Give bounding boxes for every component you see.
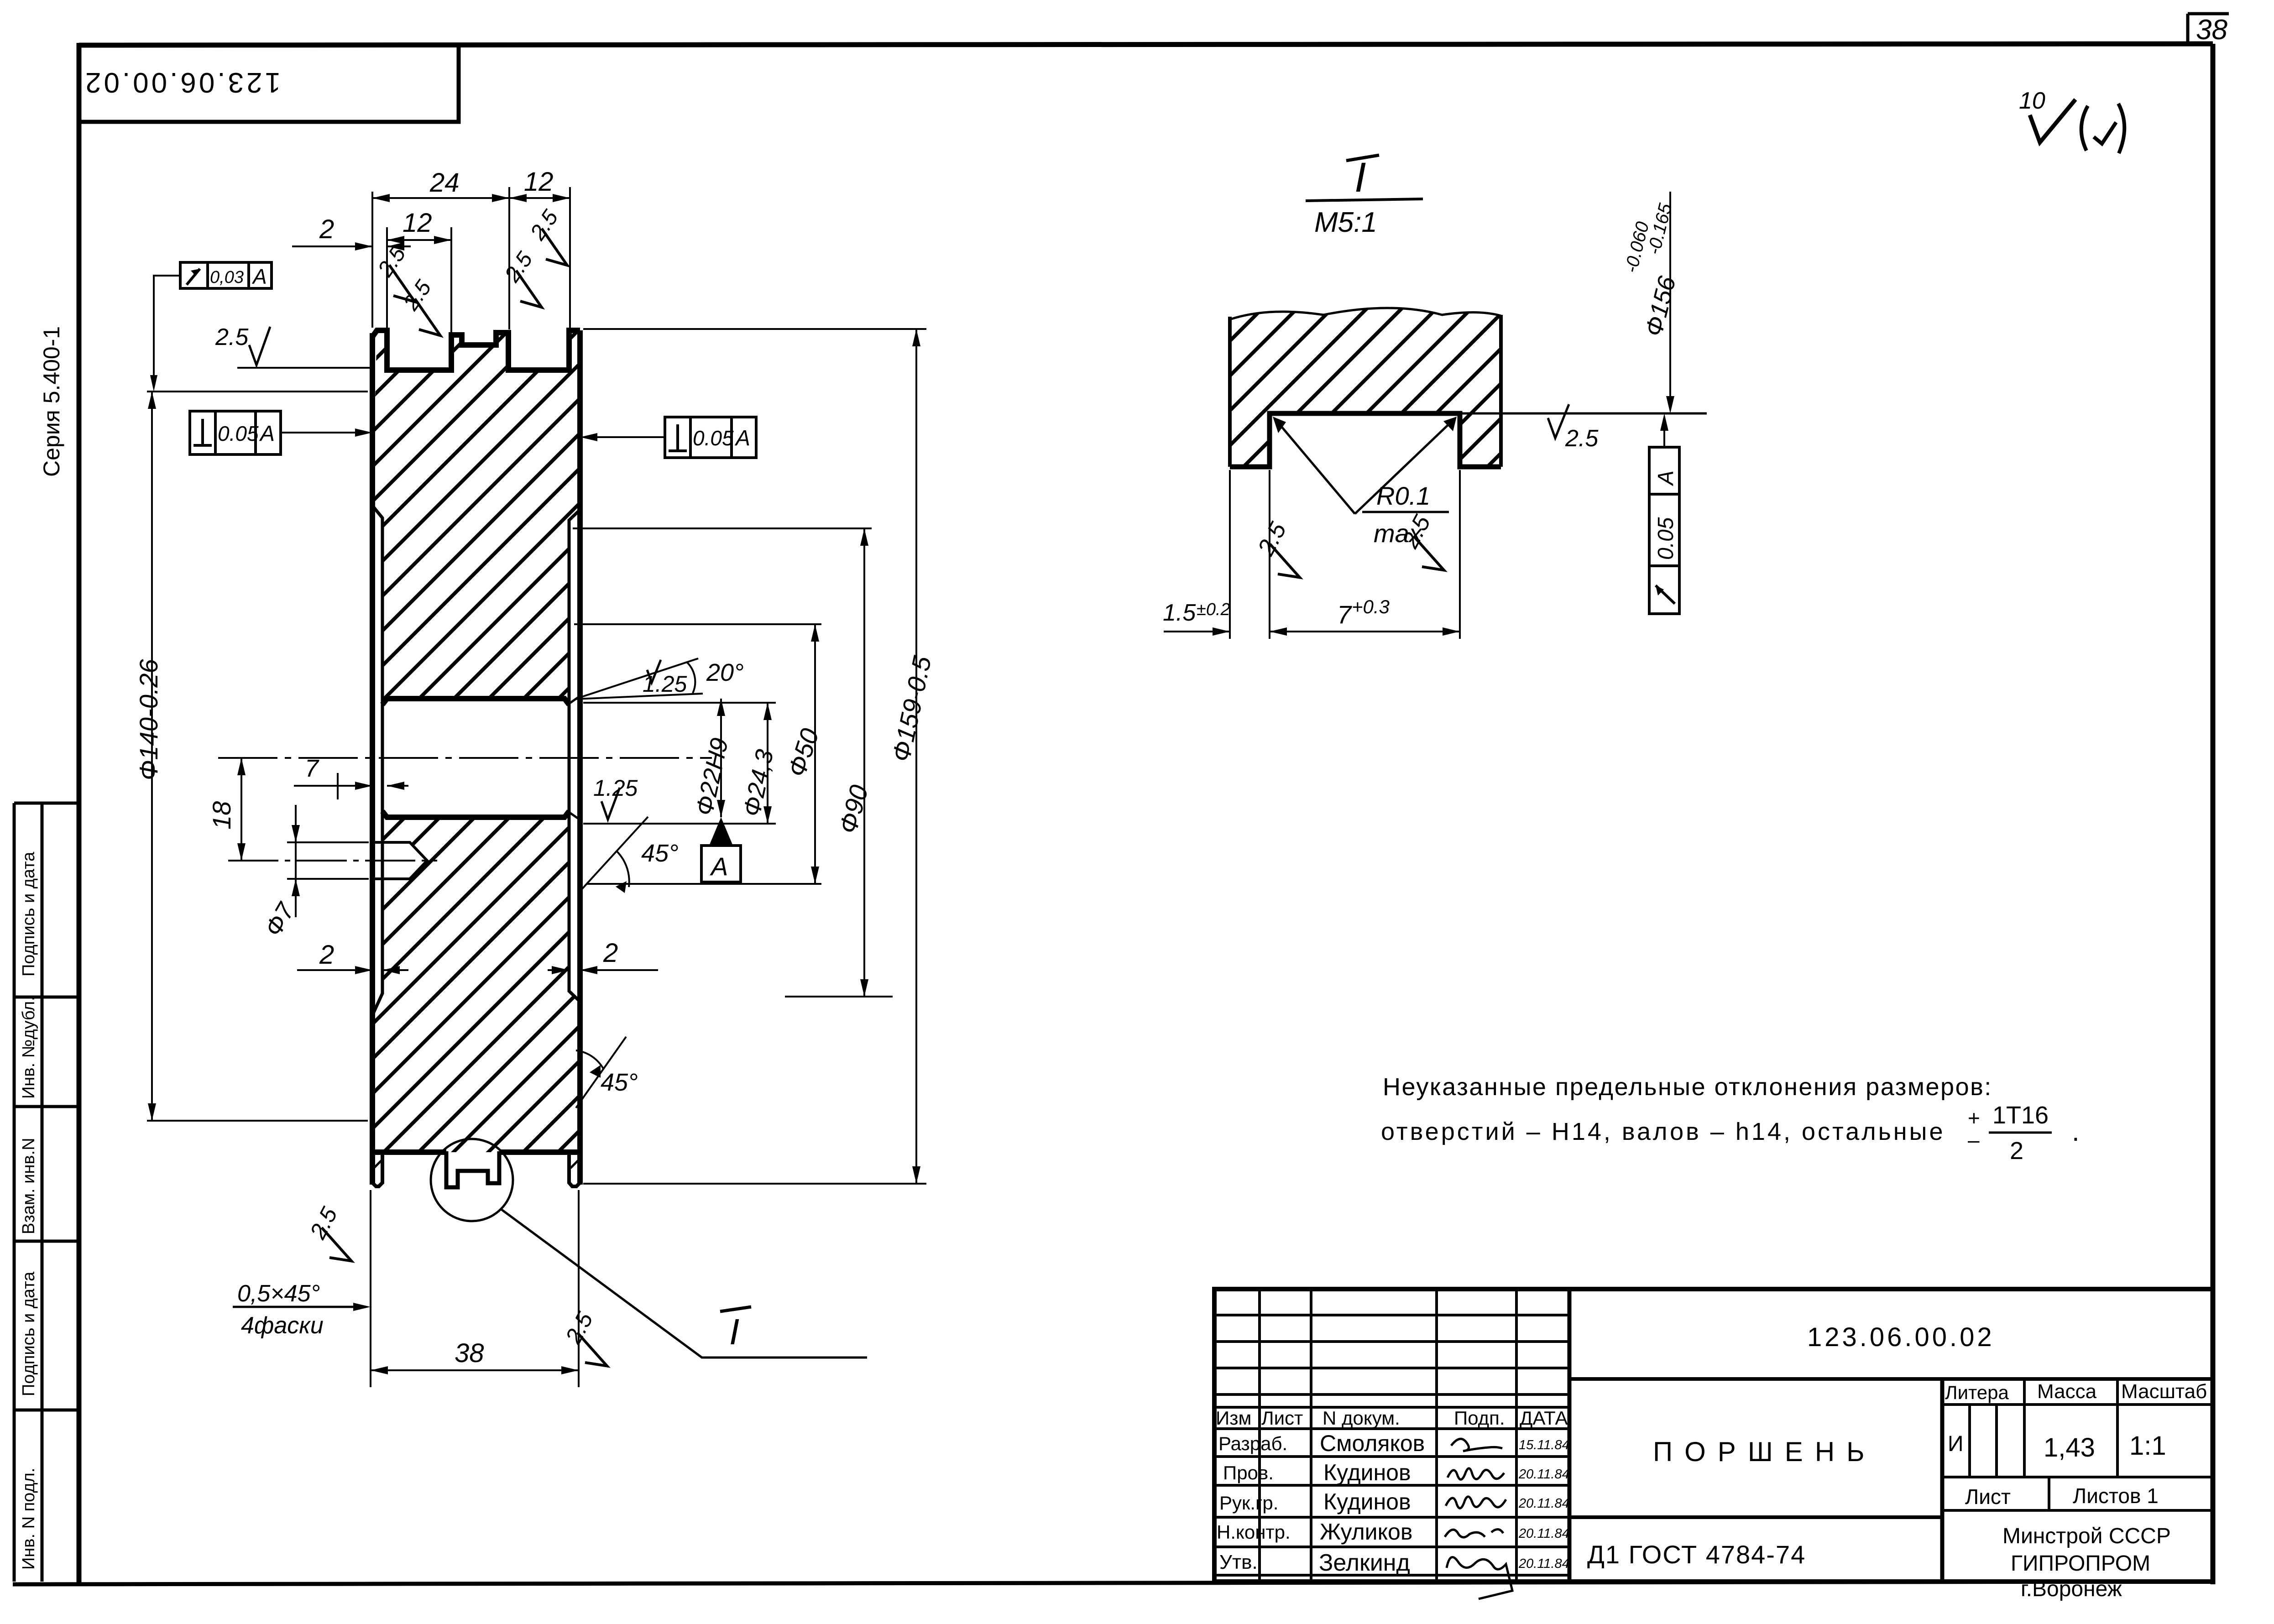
drain hole void (white) <box>371 842 427 879</box>
dimension line D22H9 <box>720 699 722 817</box>
svg-text:0.05: 0.05 <box>1654 517 1678 560</box>
svg-text:Литера: Литера <box>1945 1382 2009 1403</box>
extension D24.3 top <box>583 702 776 704</box>
svg-text:г.Воронеж: г.Воронеж <box>2021 1577 2122 1601</box>
perpendicularity frame left <box>190 411 281 454</box>
roughness 2.5 bottom left <box>299 1203 369 1267</box>
pin bore upper edge <box>382 699 569 705</box>
svg-text:12: 12 <box>403 208 432 238</box>
dimension 2 (right recess depth) <box>580 969 658 971</box>
svg-text:отверстий – Н14, валов – h14,: отверстий – Н14, валов – h14, остальные <box>1381 1118 1945 1145</box>
dimension 1.5+-0.2 <box>1164 631 1230 632</box>
R0.1 max leader arrows <box>1275 418 1455 514</box>
svg-text:2.5: 2.5 <box>1565 425 1599 452</box>
svg-text:Кудинов: Кудинов <box>1323 1489 1411 1514</box>
part name box line <box>1569 1515 1942 1519</box>
svg-text:Подпись и дата: Подпись и дата <box>19 1271 38 1396</box>
right section header lines <box>1942 1379 2213 1510</box>
detail block right edge <box>1499 315 1503 467</box>
svg-text:7: 7 <box>305 755 319 782</box>
extension line D159 bottom <box>583 1183 926 1185</box>
svg-text:A: A <box>251 265 267 288</box>
svg-text:M5:1: M5:1 <box>1314 207 1377 238</box>
extension line D90 top <box>573 527 872 529</box>
chamfer 45 deg annotation (upper) <box>580 817 648 891</box>
svg-text:I: I <box>729 1311 739 1352</box>
svg-text:123.06.00.02: 123.06.00.02 <box>83 67 281 98</box>
extension lines above piston <box>371 192 373 328</box>
svg-text:Масштаб: Масштаб <box>2121 1380 2207 1403</box>
svg-text:Серия 5.400-1: Серия 5.400-1 <box>39 326 64 477</box>
svg-text:18: 18 <box>207 801 236 830</box>
extension lines for detail dims <box>1229 470 1231 639</box>
svg-text:4фаски: 4фаски <box>241 1312 324 1339</box>
svg-text:2: 2 <box>603 938 618 968</box>
pin bore lower edge <box>382 811 569 817</box>
svg-text:–: – <box>1968 1128 1980 1152</box>
svg-text:ГИПРОПРОМ: ГИПРОПРОМ <box>2011 1551 2150 1576</box>
bore mouth cone lower (20 deg) <box>569 812 581 820</box>
svg-text:2.5: 2.5 <box>215 324 249 350</box>
svg-text:A: A <box>259 422 275 446</box>
svg-text:10: 10 <box>2019 88 2045 114</box>
designation box line <box>1569 1377 2213 1381</box>
dimension D156 <box>1669 192 1671 408</box>
svg-text:Смоляков: Смоляков <box>1320 1431 1425 1456</box>
svg-text:Взам. инв.N: Взам. инв.N <box>19 1138 38 1234</box>
svg-text:Ф140-0.26: Ф140-0.26 <box>134 659 163 780</box>
svg-text:Д1 ГОСТ 4784-74: Д1 ГОСТ 4784-74 <box>1587 1540 1806 1569</box>
piston body (hatched section) <box>372 330 580 1152</box>
left margin label strip <box>14 803 79 1582</box>
svg-text:Неуказанные предельные отклоне: Неуказанные предельные отклонения размер… <box>1383 1073 1992 1101</box>
roughness 2.5 in groove 1 (b) <box>392 276 460 341</box>
dimension line D90 <box>863 528 865 997</box>
extension lines for 38 <box>370 1190 371 1387</box>
dimension line D50 <box>814 624 816 884</box>
detail I circle <box>431 1139 513 1221</box>
general roughness mark 10 sqrt(v) <box>2030 99 2124 153</box>
bore axis centerline <box>218 757 712 759</box>
svg-text:И: И <box>1948 1432 1964 1456</box>
bottom oil ring groove profile <box>446 1151 499 1187</box>
bottom left land foot <box>372 1152 382 1186</box>
bottom right land foot <box>569 1152 580 1186</box>
svg-text:Лист: Лист <box>1261 1407 1303 1429</box>
svg-text:+: + <box>1968 1106 1980 1130</box>
svg-text:2: 2 <box>2010 1137 2023 1164</box>
sheet number box 38 <box>2188 14 2229 44</box>
svg-text:12: 12 <box>524 167 554 197</box>
dimension 12 (groove width) <box>387 239 451 241</box>
drain hole outline <box>371 842 427 879</box>
extension line D50 bottom <box>586 883 821 885</box>
surface line extending right <box>1460 413 1707 415</box>
piston top profile outline <box>372 330 580 370</box>
svg-text:20°: 20° <box>706 659 744 686</box>
svg-text:A: A <box>710 852 728 881</box>
svg-text:+0.3: +0.3 <box>1352 596 1390 617</box>
title block vertical lines (left table) <box>1260 1289 1516 1582</box>
extension line D90 bottom <box>785 996 893 997</box>
svg-text:Масса: Масса <box>2037 1380 2097 1403</box>
leader from runout frame to surface <box>1663 419 1665 447</box>
svg-text:A: A <box>1654 470 1678 486</box>
detail groove outline <box>1230 413 1501 467</box>
svg-text:Рук.гр.: Рук.гр. <box>1219 1492 1278 1514</box>
bore mouth cone upper (20 deg) <box>569 695 581 704</box>
dimension 7 (drain hole depth) <box>294 785 372 787</box>
roughness 2.5 bottom right <box>555 1308 624 1372</box>
cone 20 deg annotation lines <box>575 658 698 699</box>
svg-text:Разраб.: Разраб. <box>1218 1433 1287 1454</box>
svg-text:38: 38 <box>2196 14 2227 46</box>
svg-text:2: 2 <box>319 940 334 970</box>
dimension 38 <box>371 1369 579 1371</box>
left face recess line (D140) <box>372 506 382 1015</box>
svg-text:Утв.: Утв. <box>1219 1551 1258 1573</box>
datum A box <box>701 846 741 882</box>
extension line D50 top <box>574 623 821 625</box>
dimension 12 (top right) <box>509 197 570 199</box>
svg-text:Пров.: Пров. <box>1223 1462 1274 1483</box>
svg-text:Инв. №дубл.: Инв. №дубл. <box>19 996 38 1099</box>
top-left document number stamp box <box>79 45 459 122</box>
dimension 24 <box>372 197 509 199</box>
roughness 2.5 top right land <box>519 205 587 271</box>
svg-text:20.11.84: 20.11.84 <box>1518 1496 1569 1511</box>
svg-text:Инв. N подл.: Инв. N подл. <box>19 1468 38 1570</box>
svg-text:ДАТА: ДАТА <box>1520 1407 1568 1429</box>
svg-text:1,43: 1,43 <box>2044 1433 2095 1462</box>
svg-text:20.11.84: 20.11.84 <box>1518 1556 1569 1571</box>
svg-text:24: 24 <box>429 168 460 198</box>
svg-text:N докум.: N докум. <box>1323 1407 1400 1429</box>
svg-text:15.11.84: 15.11.84 <box>1519 1438 1569 1452</box>
roughness 2.5 in detail groove left <box>1247 518 1317 584</box>
svg-text:Жуликов: Жуликов <box>1320 1519 1412 1545</box>
drain hole centerline <box>228 860 437 862</box>
dimension 18 <box>240 758 242 861</box>
extension line D159 top <box>583 328 926 330</box>
detail I leader line <box>501 1209 867 1358</box>
svg-text:45°: 45° <box>641 840 679 867</box>
left face outer wall <box>370 333 375 1185</box>
detail block hatched body <box>1230 308 1501 467</box>
svg-text:Лист: Лист <box>1965 1485 2011 1509</box>
leader left perpendicularity <box>281 432 368 433</box>
svg-text:1:1: 1:1 <box>2129 1431 2166 1461</box>
foot hatch ticks <box>374 1160 382 1168</box>
svg-text:R0.1: R0.1 <box>1376 481 1430 510</box>
svg-text:0,03: 0,03 <box>210 268 244 287</box>
svg-text:Кудинов: Кудинов <box>1323 1460 1411 1485</box>
svg-text:0.05: 0.05 <box>693 426 734 450</box>
svg-text:2: 2 <box>319 214 334 244</box>
svg-text:Подп.: Подп. <box>1454 1407 1505 1429</box>
runout frame rotated (0.05 A) <box>1649 447 1679 614</box>
detail block left edge <box>1228 317 1232 467</box>
svg-text:20.11.84: 20.11.84 <box>1518 1467 1569 1482</box>
svg-text:0.05: 0.05 <box>218 422 259 445</box>
chamfer 45 deg annotation (lower) <box>576 1037 626 1108</box>
leader from 0.03 frame to D140 <box>154 276 180 386</box>
detail block wavy break line <box>1230 308 1501 319</box>
svg-text:Изм: Изм <box>1216 1407 1251 1429</box>
svg-text:0,5×45°: 0,5×45° <box>237 1280 320 1307</box>
svg-text:I: I <box>1354 154 1366 201</box>
runout tolerance frame 0.03 A <box>180 262 272 288</box>
roughness 2.5 in groove 1 (a) <box>366 242 435 308</box>
dimension line D159-0.5 <box>915 329 917 1184</box>
svg-text:1.5: 1.5 <box>1163 600 1196 626</box>
svg-text:38: 38 <box>455 1338 484 1368</box>
perpendicularity frame right <box>665 417 756 458</box>
svg-text:ПОРШЕНЬ: ПОРШЕНЬ <box>1653 1436 1877 1467</box>
extension D24.3 bottom <box>583 823 776 825</box>
svg-text:20.11.84: 20.11.84 <box>1518 1526 1569 1541</box>
right face outer wall <box>577 330 583 1185</box>
datum A arrow <box>709 817 733 846</box>
svg-text:7: 7 <box>1337 600 1352 629</box>
svg-text:A: A <box>734 426 750 450</box>
signatures <box>1445 1439 1512 1599</box>
roughness 2.5 in detail groove right <box>1391 511 1462 577</box>
dimension 2 (left recess depth) <box>297 969 372 971</box>
groove bottom extension line <box>237 367 371 369</box>
dimension D7 <box>287 841 369 843</box>
dimension line D24.3 <box>767 703 768 824</box>
svg-text:123.06.00.02: 123.06.00.02 <box>1807 1322 1995 1352</box>
bottom face line <box>372 1149 446 1155</box>
svg-text:.: . <box>2072 1116 2080 1147</box>
svg-text:Зелкинд: Зелкинд <box>1319 1550 1410 1576</box>
pin bore void (white) <box>376 700 577 816</box>
dimension 2 (top land) <box>292 245 372 247</box>
roughness 2.5 in groove 2 <box>493 247 562 313</box>
leader right perpendicularity <box>585 436 665 438</box>
svg-text:1Т16: 1Т16 <box>1992 1102 2049 1129</box>
dimension 7+0.3 <box>1270 631 1460 632</box>
svg-text:Минстрой СССР: Минстрой СССР <box>2002 1524 2171 1548</box>
svg-text:±0.2: ±0.2 <box>1197 600 1230 619</box>
svg-text:Н.контр.: Н.контр. <box>1217 1521 1291 1543</box>
svg-text:45°: 45° <box>601 1069 638 1096</box>
svg-text:Подпись и дата: Подпись и дата <box>19 851 38 976</box>
svg-text:Листов 1: Листов 1 <box>2073 1484 2159 1508</box>
right face recess line (D90) <box>569 510 580 1002</box>
title block outer frame <box>1214 1289 2213 1582</box>
title block horizontal lines (left table) <box>1214 1315 1569 1575</box>
dimension D140-0.26 <box>147 391 368 392</box>
